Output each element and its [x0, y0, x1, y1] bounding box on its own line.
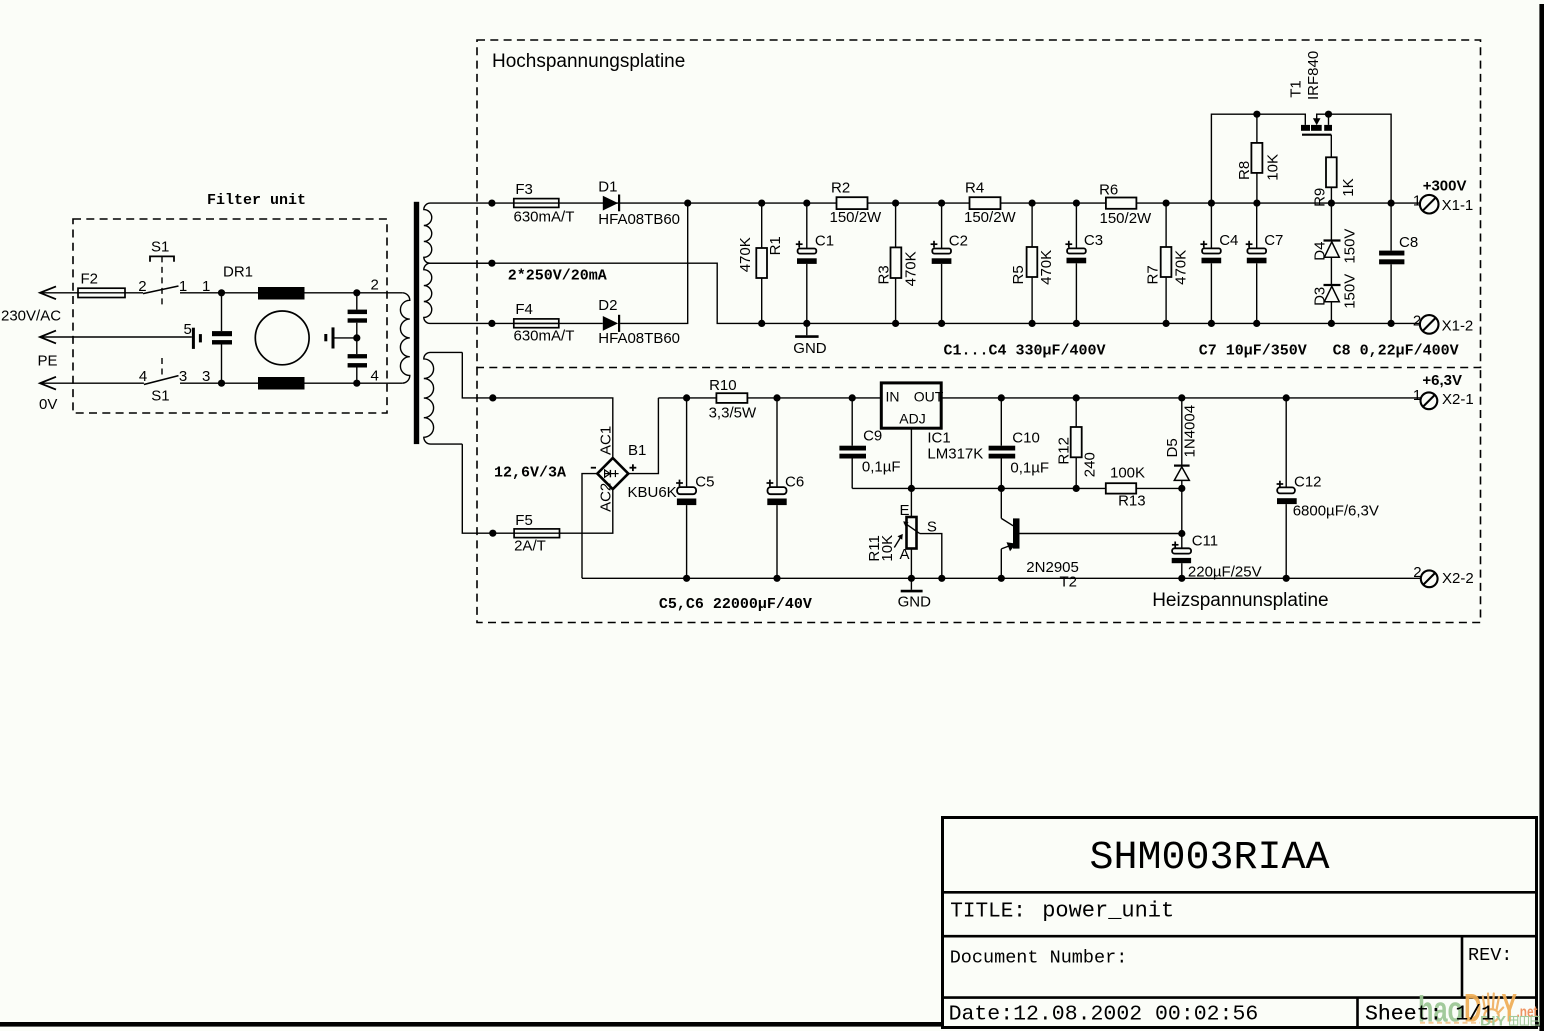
- label R4: [965, 180, 984, 197]
- terminal X2-2: [1421, 570, 1438, 587]
- svg-text:2: 2: [1413, 564, 1421, 581]
- label 230V/AC: [1, 308, 61, 325]
- svg-text:ADJ: ADJ: [899, 411, 925, 427]
- value 100K of R13: [1110, 465, 1145, 482]
- label B1: [628, 442, 646, 459]
- plus mark of C7: [1246, 241, 1253, 248]
- wire +rail R2 to R4: [868, 202, 970, 204]
- plus mark of C11: [1172, 542, 1179, 549]
- label Hochspannungsplatine: [492, 51, 685, 72]
- field Date: [949, 1003, 1259, 1027]
- svg-text:630mA/T: 630mA/T: [514, 209, 575, 226]
- svg-text:R6: R6: [1099, 182, 1118, 199]
- net label +300V: [1423, 177, 1467, 194]
- value IRF840 of T1: [1305, 51, 1322, 100]
- port arrow 230V/AC: [40, 286, 56, 299]
- svg-text:OUT: OUT: [914, 389, 944, 405]
- wire +rail R4 to R6: [1001, 202, 1106, 204]
- pin AC2 of B1: [597, 483, 614, 512]
- field Sheet: [1365, 1003, 1494, 1027]
- value 150/2W of R4: [964, 209, 1017, 226]
- transistor T1 MOSFET IRF840: [1301, 114, 1332, 157]
- svg-text:+6,3V: +6,3V: [1422, 372, 1462, 389]
- wire center tap rail: [492, 263, 1420, 323]
- switch S1 actuator bracket: [150, 256, 174, 261]
- capacitor C9: [839, 398, 866, 489]
- svg-text:HFA08TB60: HFA08TB60: [598, 330, 680, 347]
- svg-text:R5: R5: [1010, 265, 1027, 284]
- label X1-2: [1442, 318, 1474, 335]
- svg-text:1: 1: [1413, 387, 1421, 404]
- svg-text:2: 2: [138, 278, 146, 295]
- value 150/2W of R6: [1100, 210, 1153, 227]
- note C5,C6 22000uF/40V: [659, 596, 812, 613]
- resistor R6: [1106, 198, 1137, 209]
- pin 3 of DR1: [202, 368, 210, 385]
- pin 1 of S1: [179, 278, 187, 295]
- field TITLE: power_unit: [950, 899, 1174, 924]
- label F2: [81, 271, 99, 288]
- svg-text:2*250V/20mA: 2*250V/20mA: [508, 268, 607, 285]
- value 2N2905 of T2: [1026, 559, 1079, 576]
- junction dots transformer leads: [488, 200, 496, 537]
- label C9: [863, 427, 882, 444]
- capacitor C3: [1067, 203, 1087, 323]
- svg-text:4: 4: [371, 368, 379, 385]
- svg-text:150/2W: 150/2W: [830, 209, 883, 226]
- svg-text:R12: R12: [1055, 437, 1072, 465]
- svg-text:F3: F3: [515, 181, 533, 198]
- svg-text:150V: 150V: [1341, 274, 1358, 309]
- value HFA08TB60 of D2: [598, 330, 680, 347]
- svg-text:470K: 470K: [902, 251, 919, 286]
- wire +6,3V rail IC1 OUT to X2-1: [941, 397, 1420, 399]
- wiper arrow mark of R11: [894, 534, 903, 548]
- junction dot D2 to rail: [684, 200, 691, 207]
- svg-text:2A/T: 2A/T: [514, 538, 546, 555]
- label D3: [1311, 287, 1328, 306]
- port arrow PE: [40, 331, 56, 344]
- junction dots +6,3V rail: [683, 394, 1290, 401]
- svg-text:R8: R8: [1236, 161, 1253, 180]
- label X2-2: [1442, 570, 1474, 587]
- pin 5 label: [184, 321, 192, 338]
- label F5: [515, 512, 533, 529]
- fuse F5: [514, 529, 559, 538]
- svg-text:6800µF/6,3V: 6800µF/6,3V: [1293, 503, 1379, 520]
- svg-text:230V/AC: 230V/AC: [1, 308, 61, 325]
- svg-text:D2: D2: [598, 297, 617, 314]
- svg-text:C11: C11: [1192, 533, 1218, 550]
- transformer primary winding: [400, 293, 409, 383]
- svg-text:C10: C10: [1012, 429, 1040, 446]
- svg-text:470K: 470K: [1038, 250, 1055, 285]
- Heizspannunsplatine dashed box: [477, 368, 1481, 623]
- value 240 of R12: [1081, 452, 1098, 477]
- svg-text:C5: C5: [695, 473, 714, 490]
- S1 linkage dashed top: [161, 256, 163, 305]
- svg-text:AC1: AC1: [597, 426, 614, 455]
- resistor R10: [716, 393, 747, 403]
- svg-text:R7: R7: [1144, 265, 1161, 284]
- capacitor C7: [1247, 203, 1267, 323]
- diode D1: [603, 195, 619, 212]
- svg-text:R2: R2: [831, 180, 850, 197]
- wire R13 to D5 node: [1136, 487, 1182, 489]
- wire PE line: [40, 336, 192, 338]
- plus mark of B1: [630, 464, 637, 471]
- svg-text:A: A: [900, 546, 910, 563]
- label C2: [949, 233, 968, 250]
- label F4: [515, 301, 533, 318]
- field Sheet redrawn over watermark: [1365, 1003, 1494, 1027]
- svg-text:C6: C6: [785, 473, 804, 490]
- value 6800uF/6,3V of C12: [1293, 503, 1379, 520]
- svg-text:SHM003RIAA: SHM003RIAA: [1090, 836, 1330, 881]
- svg-text:1: 1: [202, 278, 210, 295]
- capacitor C1: [797, 203, 817, 323]
- port arrow 0V: [40, 377, 56, 390]
- capacitor C10: [989, 398, 1016, 489]
- wire gate rail right segment: [1317, 114, 1391, 203]
- svg-text:0,1µF: 0,1µF: [862, 459, 901, 476]
- wire ADJ rail: [852, 487, 1106, 489]
- transformer secondary winding C (12.6V): [424, 352, 463, 444]
- svg-text:C3: C3: [1084, 232, 1103, 249]
- value LM317K of IC1: [927, 446, 983, 463]
- capacitor C12: [1277, 398, 1297, 578]
- label 0V: [39, 396, 57, 413]
- Hochspannungsplatine dashed box: [477, 40, 1481, 368]
- label D4: [1311, 242, 1328, 261]
- plus mark of C1: [796, 241, 803, 248]
- svg-text:X2-2: X2-2: [1442, 570, 1474, 587]
- svg-text:+300V: +300V: [1423, 177, 1467, 194]
- pin 1 of X2: [1413, 387, 1421, 404]
- value 150V of D4: [1341, 229, 1358, 264]
- value 220uF/25V of C11: [1188, 563, 1262, 580]
- label R2: [831, 180, 850, 197]
- label C3: [1084, 232, 1103, 249]
- svg-text:F4: F4: [515, 301, 533, 318]
- value 3,3/5W of R10: [709, 405, 757, 422]
- label R8: [1236, 161, 1253, 180]
- svg-text:240: 240: [1081, 452, 1098, 477]
- svg-text:D3: D3: [1311, 287, 1328, 306]
- wire B1 minus to GND rail: [582, 474, 597, 579]
- transformer secondary winding B (250V lower): [424, 263, 492, 323]
- plus mark of C3: [1065, 241, 1072, 248]
- transformer core bar: [414, 202, 419, 444]
- junction dots +300V rail: [758, 200, 1395, 207]
- minus mark of B1: [591, 467, 596, 469]
- value 1N4004 of D5: [1182, 405, 1199, 458]
- wire S1 pin1 to DR1 pin1: [180, 292, 258, 294]
- label R12: [1055, 437, 1072, 465]
- zener diode D3: [1324, 257, 1341, 323]
- label T2: [1060, 574, 1078, 591]
- label D2: [598, 297, 617, 314]
- diode D2: [603, 315, 619, 332]
- capacitor X-cap left of DR1: [212, 293, 232, 383]
- svg-text:PE: PE: [38, 353, 58, 370]
- bridge rectifier B1: [597, 458, 628, 489]
- wire +rail R6 to X1-1: [1136, 202, 1420, 204]
- label 2*250V/20mA: [508, 268, 607, 285]
- svg-text:S1: S1: [151, 238, 169, 255]
- title block frame: [941, 818, 1538, 1028]
- label C6: [785, 473, 804, 490]
- capacitor Y-cap lower right of DR1: [348, 338, 367, 383]
- svg-text:C7: C7: [1264, 232, 1283, 249]
- wire GND rail bottom box: [582, 577, 1421, 579]
- wire DR1 bottom winding to pin4 node: [305, 382, 403, 384]
- terminal X1-2: [1420, 315, 1439, 334]
- pin A of R11: [900, 546, 910, 563]
- PE chassis ground symbol: [193, 328, 200, 349]
- svg-text:100K: 100K: [1110, 465, 1145, 482]
- zener diode D4: [1324, 203, 1341, 257]
- pin 4 of DR1: [371, 368, 379, 385]
- capacitor C11: [1172, 548, 1191, 578]
- wire B1 plus to +6,3V rail: [628, 398, 658, 474]
- svg-text:.net: .net: [1517, 1004, 1538, 1021]
- value KBU6K of B1: [628, 484, 677, 501]
- wire secondary C bottom lead to F5: [462, 444, 514, 533]
- label R13: [1118, 492, 1146, 509]
- svg-text:D5: D5: [1164, 438, 1181, 457]
- svg-text:0,1µF: 0,1µF: [1010, 460, 1049, 477]
- transistor T2 2N2905: [1001, 488, 1182, 578]
- label S1 bottom: [151, 388, 169, 405]
- svg-text:1: 1: [1413, 193, 1421, 210]
- value 2A/T of F5: [514, 538, 546, 555]
- fuse F4: [514, 319, 559, 328]
- svg-text:D4: D4: [1311, 242, 1328, 261]
- title SHM003RIAA: [1090, 836, 1330, 881]
- svg-text:10K: 10K: [879, 535, 896, 562]
- value 150/2W of R2: [830, 209, 883, 226]
- svg-text:Sheet: 1/1: Sheet: 1/1: [1365, 1003, 1494, 1027]
- svg-text:470K: 470K: [737, 237, 754, 272]
- svg-text:X1-2: X1-2: [1442, 318, 1474, 335]
- svg-text:150V: 150V: [1341, 229, 1358, 264]
- value 150V of D3: [1341, 274, 1358, 309]
- label Filter unit: [207, 192, 306, 209]
- resistor R13: [1106, 483, 1136, 493]
- svg-text:Date:12.08.2002 00:02:56: Date:12.08.2002 00:02:56: [949, 1003, 1259, 1027]
- svg-text:12,6V/3A: 12,6V/3A: [494, 465, 566, 482]
- svg-text:R10: R10: [709, 377, 737, 394]
- label C5: [695, 473, 714, 490]
- resistor R2: [837, 197, 868, 209]
- label DR1: [223, 264, 253, 281]
- choke DR1 winding bottom: [258, 377, 305, 390]
- svg-text:0V: 0V: [39, 396, 57, 413]
- svg-text:2: 2: [371, 277, 379, 294]
- value 0,1uF of C10: [1010, 460, 1049, 477]
- junction dots DR1 pin2/pin4/Y-cap mid: [353, 289, 360, 387]
- capacitor C4: [1202, 203, 1222, 323]
- page bottom border: [0, 1022, 1544, 1027]
- svg-text:1N4004: 1N4004: [1182, 405, 1199, 458]
- value 470K of R7: [1173, 250, 1190, 285]
- S1 linkage dashed bottom: [161, 358, 163, 376]
- label PE: [38, 353, 58, 370]
- choke DR1 winding top: [258, 287, 305, 300]
- svg-text:E: E: [900, 502, 910, 519]
- value 470K of R3: [902, 251, 919, 286]
- resistor R4: [970, 197, 1001, 209]
- svg-text:IN: IN: [886, 389, 900, 405]
- resistor R5: [1027, 203, 1038, 323]
- pin 4 of S1: [139, 368, 147, 385]
- capacitor Y-cap upper right of DR1: [348, 293, 367, 338]
- svg-text:T1: T1: [1288, 80, 1305, 98]
- svg-text:C8: C8: [1399, 234, 1418, 251]
- junction dots GND rail top box: [758, 320, 1395, 327]
- svg-text:C2: C2: [949, 233, 968, 250]
- svg-text:DR1: DR1: [223, 264, 253, 281]
- resistor R1: [756, 203, 767, 323]
- svg-text:3,3/5W: 3,3/5W: [709, 405, 757, 422]
- value 470K of R5: [1038, 250, 1055, 285]
- pin S of R11: [927, 519, 937, 536]
- diode D5: [1174, 398, 1190, 489]
- svg-text:Filter unit: Filter unit: [207, 192, 306, 209]
- label R9: [1311, 188, 1328, 207]
- fuse F3: [514, 199, 559, 208]
- label GND top box: [793, 340, 827, 357]
- junction dots gate rail: [1253, 111, 1332, 118]
- label C12: [1294, 474, 1322, 491]
- svg-text:Hochspannungsplatine: Hochspannungsplatine: [492, 51, 685, 72]
- label C4: [1219, 232, 1238, 249]
- resistor R8: [1251, 114, 1262, 203]
- svg-text:R9: R9: [1311, 188, 1328, 207]
- svg-text:10K: 10K: [1264, 154, 1281, 181]
- value 470K of R1: [737, 237, 754, 272]
- junction dots ADJ rail: [908, 485, 1186, 492]
- wire S1 pin3 to DR1 pin3: [180, 382, 258, 384]
- svg-text:F5: F5: [515, 512, 533, 529]
- label R1: [767, 236, 784, 255]
- junction dots GND rail bottom box: [683, 575, 1290, 582]
- label C11: [1192, 533, 1218, 550]
- switch S1 top pole lever: [143, 286, 179, 294]
- svg-text:LM317K: LM317K: [927, 446, 983, 463]
- choke DR1 core circle: [255, 311, 309, 365]
- label IC1: [927, 429, 950, 446]
- label R11: [866, 535, 883, 561]
- label R10: [709, 377, 737, 394]
- svg-text:S1: S1: [151, 388, 169, 405]
- ground symbol GND bottom box: [901, 578, 923, 591]
- label X1-1: [1442, 197, 1474, 214]
- value 1K of R9: [1340, 178, 1357, 196]
- label 12,6V/3A: [494, 465, 566, 482]
- svg-text:KBU6K: KBU6K: [628, 484, 677, 501]
- note C7 10uF/350V: [1199, 343, 1307, 360]
- svg-text:R3: R3: [876, 265, 893, 284]
- terminal X2-1: [1421, 392, 1438, 409]
- junction dot T2 base to C11: [1178, 530, 1185, 537]
- svg-text:S: S: [927, 519, 937, 536]
- wire +6,3V rail B1 to R10: [658, 397, 716, 399]
- plus mark of C5: [676, 480, 683, 487]
- value 630mA/T of F3: [514, 209, 575, 226]
- field Document Number:: [950, 948, 1128, 969]
- label GND bottom box: [898, 593, 932, 610]
- plus mark of C6: [767, 480, 774, 487]
- value 10K of R11: [879, 535, 896, 562]
- svg-text:B1: B1: [628, 442, 646, 459]
- label C8: [1399, 234, 1418, 251]
- pin 2 of S1: [138, 278, 146, 295]
- watermark haoDIY.net logo: [1418, 987, 1539, 1031]
- wire IC1 ADJ pin down: [910, 428, 912, 517]
- svg-text:4: 4: [139, 368, 147, 385]
- label X2-1: [1442, 391, 1474, 408]
- chassis ground at DR1 Y-caps: [326, 327, 357, 348]
- transformer secondary winding A (250V upper): [424, 203, 492, 263]
- label C7: [1264, 232, 1283, 249]
- ground symbol GND top box: [795, 323, 819, 336]
- label D1: [598, 179, 617, 196]
- svg-text:IC1: IC1: [927, 429, 950, 446]
- value 0,1uF of C9: [862, 459, 901, 476]
- label Heizspannunsplatine: [1152, 590, 1328, 611]
- pin 2 of X2: [1413, 564, 1421, 581]
- wire F4 to D2: [492, 322, 603, 324]
- svg-text:X1-1: X1-1: [1442, 197, 1474, 214]
- plus mark of C12: [1277, 481, 1284, 488]
- svg-text:5: 5: [184, 321, 192, 338]
- note C1...C4 330uF/400V: [944, 343, 1106, 360]
- label C1: [815, 233, 834, 250]
- resistor R9: [1326, 157, 1337, 203]
- wire +6,3V rail R10 to IC1: [747, 397, 881, 399]
- svg-text:REV:: REV:: [1468, 945, 1512, 966]
- svg-text:C5,C6 22000µF/40V: C5,C6 22000µF/40V: [659, 596, 812, 613]
- svg-text:150/2W: 150/2W: [964, 209, 1017, 226]
- svg-text:F2: F2: [81, 271, 99, 288]
- label F3: [515, 181, 533, 198]
- wire D2 cathode up to D1 rail: [620, 203, 688, 323]
- svg-text:150/2W: 150/2W: [1100, 210, 1153, 227]
- wire rail D1 row (node after winding A): [492, 202, 837, 204]
- filter unit dashed box: [73, 219, 387, 413]
- svg-text:power_unit: power_unit: [1042, 899, 1174, 924]
- svg-text:D1: D1: [598, 179, 617, 196]
- regulator IC1 LM317K: [881, 383, 944, 428]
- capacitor C2: [932, 203, 952, 323]
- plus mark of C4: [1200, 241, 1207, 248]
- label S1 top: [151, 238, 169, 255]
- svg-text:3: 3: [202, 368, 210, 385]
- resistor R12: [1071, 398, 1082, 489]
- label D5: [1164, 438, 1181, 457]
- label R7: [1144, 265, 1161, 284]
- svg-text:C8 0,22µF/400V: C8 0,22µF/400V: [1333, 343, 1459, 360]
- wire F2 to switch S1 pole 2: [125, 292, 143, 294]
- resistor R3: [891, 203, 902, 323]
- wire D5 node down to C11: [1181, 488, 1183, 548]
- svg-text:HFA08TB60: HFA08TB60: [598, 211, 680, 228]
- pin E of R11: [900, 502, 910, 519]
- capacitor C5: [677, 398, 696, 578]
- svg-text:R13: R13: [1118, 492, 1146, 509]
